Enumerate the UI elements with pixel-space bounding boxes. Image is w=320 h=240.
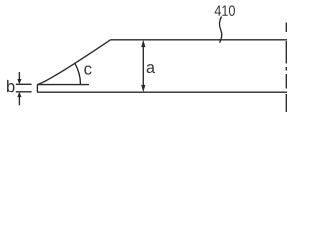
dimension a line (142, 45, 144, 87)
label b (7, 80, 15, 92)
label 410 (215, 5, 235, 16)
leader line to 410 (220, 17, 222, 43)
label c (84, 65, 91, 74)
dimension b bottom extension line (16, 91, 32, 93)
dimension b top arrowhead (pointing down) (17, 79, 21, 84)
horizontal angle reference line from tip (37, 84, 89, 86)
dimension b lower leader segment (18, 97, 20, 106)
blade tip vertical edge (36, 85, 38, 93)
label a (147, 64, 155, 73)
dimension b bottom arrowhead (pointing up) (17, 92, 21, 97)
dimension b top extension line (16, 83, 32, 85)
break line (dash-dot) at right end (285, 23, 287, 113)
angle c arc (75, 63, 81, 84)
dimension b upper leader segment (18, 72, 20, 79)
blade bottom edge line (37, 91, 287, 93)
dimension a top arrowhead (141, 40, 145, 47)
blade top edge line (110, 39, 287, 41)
blade bevel slope line (slightly curved) (37, 40, 110, 85)
dimension a bottom arrowhead (141, 85, 145, 92)
